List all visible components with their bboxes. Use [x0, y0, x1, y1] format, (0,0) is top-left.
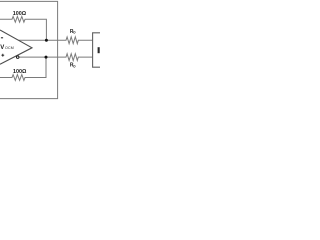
svg-text:O: O [73, 64, 76, 68]
svg-text:V: V [0, 45, 4, 51]
svg-text:O: O [73, 31, 76, 35]
svg-text:100Ω: 100Ω [13, 11, 27, 17]
svg-text:100Ω: 100Ω [13, 69, 27, 75]
svg-text:OCM: OCM [5, 46, 14, 50]
